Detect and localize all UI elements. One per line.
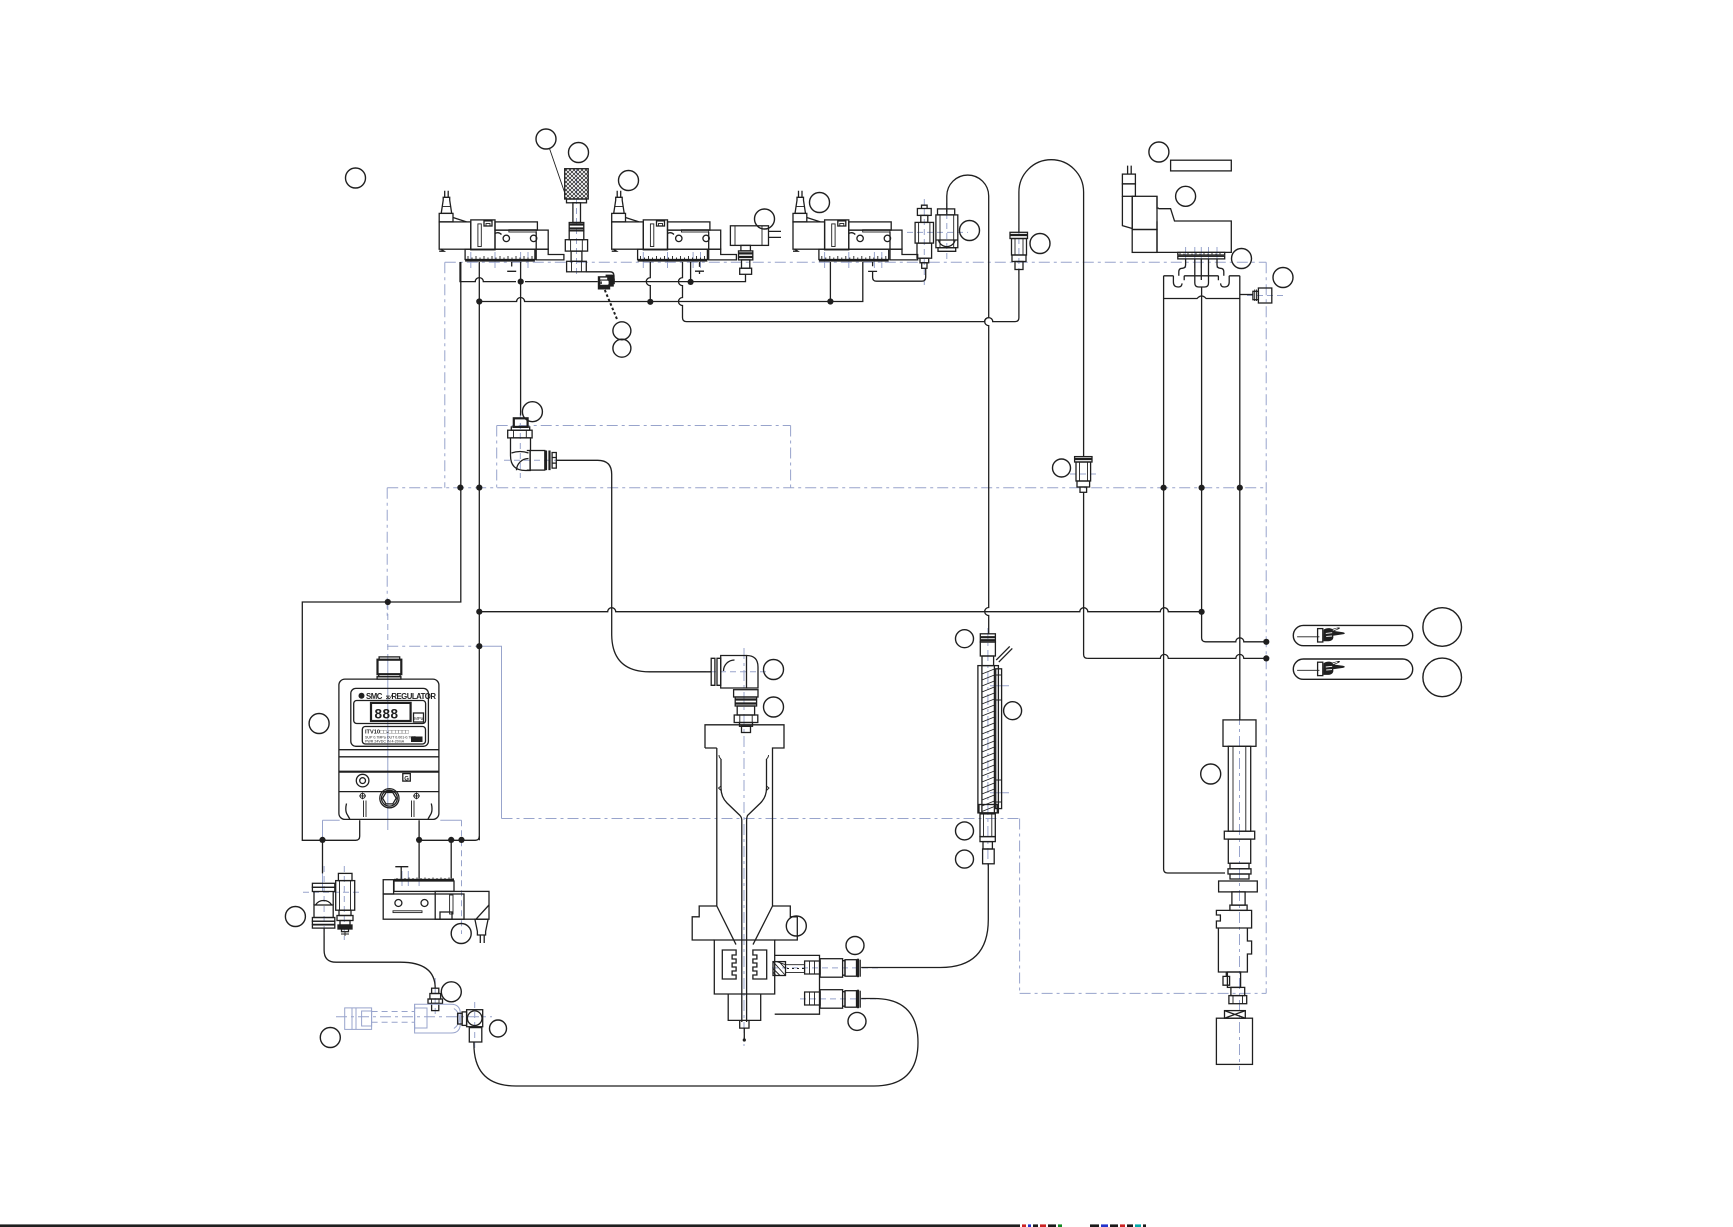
centerline valve C base ticks xyxy=(824,252,826,268)
junction dot xyxy=(827,298,833,304)
big callout circle 2 xyxy=(1423,658,1462,697)
wire nozzle tube2 to ball fitting xyxy=(474,999,918,1087)
ghost riser right xyxy=(461,820,463,934)
wire nozzle tube1 to heater xyxy=(861,864,988,968)
heater H1 xyxy=(978,634,1012,864)
wire manifold center down to pill node xyxy=(1202,299,1267,642)
svg-text:⌅∕REGULATOR: ⌅∕REGULATOR xyxy=(385,692,437,701)
centerline nozzle fitting2 xyxy=(800,998,880,1000)
electro-pneumatic regulator U1 xyxy=(339,657,439,819)
wire valveA port down (main riser) xyxy=(478,262,480,840)
wire bus4 right segment xyxy=(323,820,480,879)
leader to balloons F1 xyxy=(605,290,618,321)
solenoid connector J1 xyxy=(730,226,781,275)
centerline speed controller xyxy=(923,199,925,288)
centerline heater ticks xyxy=(990,685,1009,687)
centerline valve B base ticks xyxy=(642,252,644,268)
wire loop1 arc xyxy=(947,175,989,634)
manifold block M1 xyxy=(1164,259,1272,303)
junction dot xyxy=(1237,485,1243,491)
junction dot xyxy=(647,299,653,305)
wire loop2 arc xyxy=(1019,160,1088,659)
solenoid valve V2 xyxy=(612,191,737,262)
ghost plate bracket line xyxy=(479,646,501,818)
centerline filter verticals xyxy=(323,866,325,940)
wire elbow1 riser xyxy=(520,262,522,416)
svg-text:MPa: MPa xyxy=(414,716,424,721)
centerline nozzle horizontal xyxy=(502,818,1020,820)
wire manifold right down to cylinder top xyxy=(1239,299,1241,720)
centerline manifold side fitting xyxy=(1247,295,1284,297)
wire valveB port3 xyxy=(690,262,692,282)
centerline loop2 fitting xyxy=(1018,228,1020,274)
wire filter to check valve xyxy=(324,928,435,988)
centerline plate line y646 xyxy=(387,645,479,647)
ghost riser left xyxy=(322,820,324,892)
junction dot xyxy=(1161,485,1167,491)
union fitting F5 on loop2 right leg xyxy=(1075,457,1092,493)
pill callout hand 2 xyxy=(1293,659,1412,679)
wire bus611 xyxy=(479,608,1201,612)
elbow fitting E2 nozzle top xyxy=(711,656,758,733)
centerline cylinder vertical xyxy=(1239,714,1241,1070)
junction dot xyxy=(385,599,391,605)
solenoid valve V1 xyxy=(439,191,564,262)
junction dot xyxy=(476,643,482,649)
junction dot xyxy=(448,837,454,843)
centerline heater vertical xyxy=(987,628,989,868)
big callout circle 1 xyxy=(1423,608,1462,647)
centerline valve A base ticks xyxy=(470,252,472,268)
svg-text:PWR 24VDC IN 4-20mA: PWR 24VDC IN 4-20mA xyxy=(365,739,405,743)
check valve F8 xyxy=(428,988,443,1010)
junction dot xyxy=(518,279,524,285)
junction dot xyxy=(476,298,482,304)
needle canister C2 xyxy=(1216,1011,1252,1065)
wire bus1 valveA to connectorB xyxy=(460,262,746,282)
junction dot xyxy=(1263,639,1269,645)
junction dot xyxy=(1199,485,1205,491)
wire valveA drain via left frame xyxy=(302,262,461,840)
centerline regulator port xyxy=(387,604,389,656)
centerline elbow2 xyxy=(700,671,766,673)
centerline right vertical datum xyxy=(1265,262,1267,993)
wire valveB blocked port xyxy=(695,262,704,274)
svg-text:SMC: SMC xyxy=(366,692,383,701)
speed controller SC1 xyxy=(915,205,958,268)
junction dot xyxy=(476,609,482,615)
footer bar xyxy=(0,1224,1020,1227)
centerline nozzle vertical xyxy=(743,648,745,1046)
wire valveC port1 xyxy=(829,262,831,302)
centerline elbow1 xyxy=(519,413,521,478)
mini filter F6 xyxy=(312,883,334,928)
wire valveB port2 to loop2 xyxy=(679,262,1019,322)
centerline ghost cylinder axis xyxy=(336,1016,492,1018)
wire valveA blocked port xyxy=(507,262,516,271)
junction dot xyxy=(688,279,694,285)
centerline elbow box right xyxy=(790,426,792,488)
balloon callouts xyxy=(346,168,366,188)
junction dot xyxy=(416,837,422,843)
centerline main horizontal datum xyxy=(445,261,1266,263)
inline plug fitting F1 xyxy=(598,275,615,290)
ball elbow fitting F9 xyxy=(458,1010,483,1042)
elbow fitting E1 xyxy=(508,418,557,470)
push-in fitting F3 lower xyxy=(805,990,861,1009)
centerline mid horizontal datum xyxy=(387,487,1266,489)
ghost cylinder (reference) xyxy=(345,1004,461,1033)
svg-text:888: 888 xyxy=(375,706,399,721)
centerline left vertical datum xyxy=(444,262,446,487)
junction dot xyxy=(457,485,463,491)
svg-text:G: G xyxy=(404,776,409,782)
wire valveB port1 xyxy=(646,262,650,302)
wire valveC blocked port to speed controller xyxy=(868,262,926,281)
wire knurl plug link xyxy=(586,272,614,282)
footer glitch text xyxy=(1022,1224,1146,1227)
centerline heater-box vertical xyxy=(1019,819,1021,994)
centerline valve D port ticks xyxy=(1185,247,1187,268)
centerline ball fitting xyxy=(474,1002,476,1048)
push-in fitting F2 upper xyxy=(805,959,861,978)
wire elbow1 tube to elbow2 xyxy=(557,460,712,672)
solenoid valve V4 top right xyxy=(1122,166,1231,259)
centerline check valve xyxy=(434,978,436,1016)
drip fitting F7 xyxy=(336,873,355,936)
centerline knurl plug vertical xyxy=(576,168,578,276)
solenoid valve V3 xyxy=(793,191,918,262)
centerline elbow box top xyxy=(497,425,791,427)
centerline regulator vertical xyxy=(386,488,388,618)
leader to balloon knurl xyxy=(550,149,566,196)
mounting bracket valve V5 (inverted) xyxy=(383,867,489,943)
centerline kq2h fitting xyxy=(1070,473,1098,475)
centerline bracket ticks xyxy=(401,871,403,886)
junction dot xyxy=(1263,655,1269,661)
wire manifold left down to cylinder xyxy=(1164,299,1225,874)
junction dot xyxy=(458,837,464,843)
dispensing cylinder C1 xyxy=(1216,720,1257,1004)
wire speed controller feed stub xyxy=(946,209,948,215)
pill callout hand 1 xyxy=(1293,625,1412,645)
knurled plug P1 xyxy=(565,169,589,272)
centerline nozzle fitting1 xyxy=(772,967,880,969)
centerline lower-right horizontal xyxy=(1020,992,1267,994)
wire bus2 xyxy=(479,262,863,302)
svg-text:ITV10□□-□□□□□□: ITV10□□-□□□□□□ xyxy=(365,729,409,735)
junction dot xyxy=(319,837,325,843)
label rectangle xyxy=(1171,160,1232,171)
centerline elbow box left xyxy=(496,426,498,488)
nozzle body N1 xyxy=(692,725,819,1042)
union fitting F4 on loop2 left leg xyxy=(1010,232,1028,269)
junction dot xyxy=(1199,609,1205,615)
junction dot xyxy=(476,485,482,491)
wire line658 to pill node xyxy=(1088,654,1267,658)
